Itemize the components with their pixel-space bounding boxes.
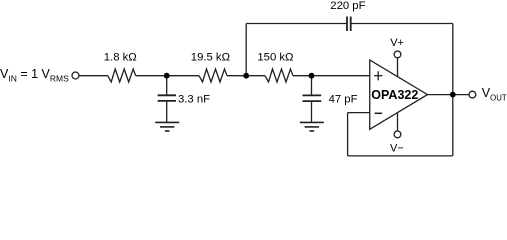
terminal V+ <box>394 51 401 58</box>
wire feedback top left <box>246 23 347 25</box>
svg-text:1.8 kΩ: 1.8 kΩ <box>104 51 137 63</box>
svg-text:150 kΩ: 150 kΩ <box>257 51 293 63</box>
wire op-amp output <box>428 94 470 96</box>
capacitor C3 220 pF <box>347 17 351 32</box>
wire feedback right vertical <box>452 24 454 156</box>
svg-text:OPA322: OPA322 <box>371 88 418 102</box>
svg-text:3.3 nF: 3.3 nF <box>178 94 210 106</box>
op-amp U1 triangle <box>370 60 428 129</box>
input terminal VIN <box>72 72 79 79</box>
terminal V- <box>394 131 401 138</box>
junction node A <box>164 73 170 79</box>
wire R2 to R3 <box>227 75 265 77</box>
terminal VOUT <box>469 91 476 98</box>
wire to inverting input <box>348 112 370 114</box>
wire R3 to op-amp + input <box>293 75 370 77</box>
resistor R2 19.5 k <box>199 69 227 82</box>
junction node B <box>243 73 249 79</box>
svg-text:47 pF: 47 pF <box>329 94 358 106</box>
wire feedback left vertical <box>347 113 349 156</box>
ground G1 <box>155 122 179 131</box>
wire feedback top right <box>351 23 453 25</box>
svg-text:V+: V+ <box>390 37 404 49</box>
resistor R1 1.8 k <box>108 69 136 82</box>
wire V- stub <box>397 113 399 131</box>
junction node C <box>309 73 315 79</box>
wire R1 to R2 <box>136 75 199 77</box>
wire C1 to ground <box>166 101 168 123</box>
ground G2 <box>300 122 324 131</box>
wire node B up to feedback <box>245 24 247 76</box>
wire feedback bottom <box>348 155 453 157</box>
wire input to R1 <box>79 75 108 77</box>
op-amp plus input symbol <box>374 75 382 77</box>
svg-text:220 pF: 220 pF <box>330 0 365 12</box>
svg-text:19.5 kΩ: 19.5 kΩ <box>191 51 230 63</box>
junction output node <box>450 92 456 98</box>
capacitor C2 47 pF <box>303 95 322 101</box>
wire node C down to C2 <box>311 76 313 96</box>
op-amp minus input symbol <box>375 112 383 114</box>
wire V+ stub <box>397 58 399 77</box>
svg-text:V−: V− <box>390 143 404 155</box>
capacitor C1 3.3 nF <box>158 95 176 101</box>
wire node A down to C1 <box>166 76 168 96</box>
resistor R3 150 k <box>265 69 293 82</box>
wire C2 to ground <box>311 101 313 122</box>
